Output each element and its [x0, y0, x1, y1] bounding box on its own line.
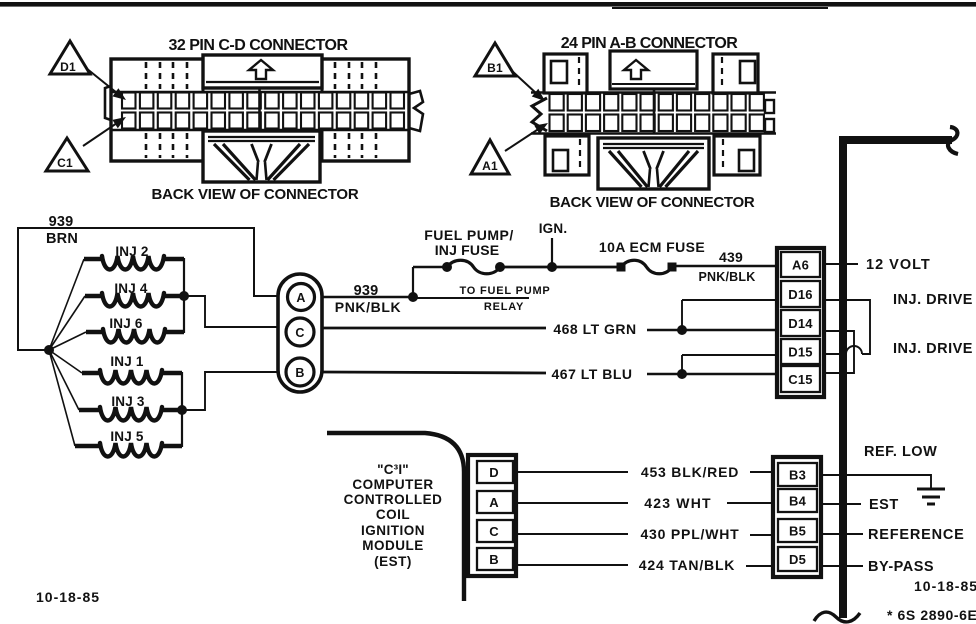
- callout triangle D1: [50, 41, 90, 74]
- node INJ 1/3/5 junction: [177, 405, 187, 415]
- connector J2 center divider: [653, 89, 656, 134]
- node 468 branch: [677, 325, 687, 335]
- ECM connector pins A6 D16 D14 D15 C15: [777, 248, 824, 397]
- label BACK VIEW OF CONNECTOR (left): [152, 186, 359, 203]
- label TO FUEL PUMP RELAY: [459, 285, 550, 313]
- connector J2 pin row B (top, 12 cavities): [550, 94, 764, 111]
- arrow from C1 to pin row: [83, 117, 126, 146]
- svg-text:939: 939: [354, 283, 379, 299]
- label 430 PPL/WHT: [640, 526, 739, 542]
- wire IGN node to ECM fuse: [552, 266, 621, 269]
- connector J2 keying arrow: [624, 60, 648, 79]
- svg-text:BACK VIEW OF CONNECTOR: BACK VIEW OF CONNECTOR: [152, 186, 359, 203]
- wire branch to pin D15: [682, 355, 781, 374]
- svg-text:IGNITION: IGNITION: [361, 523, 425, 538]
- injector INJ 3: [79, 394, 182, 421]
- callout triangle C1: [46, 138, 88, 171]
- svg-text:D14: D14: [788, 316, 813, 331]
- connector J2 24-pin A-B body: [531, 51, 776, 175]
- wire 467 LT BLU: [322, 372, 781, 374]
- svg-text:(EST): (EST): [374, 554, 412, 569]
- connector J1 wing hatch upper-left: [146, 62, 187, 89]
- node fuel pump branch: [408, 292, 418, 302]
- svg-text:A1: A1: [482, 159, 498, 173]
- callout triangle A1: [471, 140, 509, 174]
- connector J1 wing hatch upper-right: [335, 62, 376, 89]
- label C3I COMPUTER CONTROLLED COIL IGNITION MODULE (EST): [344, 462, 443, 569]
- svg-text:A: A: [489, 495, 499, 510]
- label 468 LT GRN: [553, 321, 636, 337]
- label 439 PNK/BLK: [699, 249, 756, 284]
- node injector supply splice: [44, 345, 54, 355]
- svg-text:10-18-85: 10-18-85: [914, 578, 976, 594]
- wire bus INJ 1/3/5: [181, 372, 183, 447]
- svg-text:C: C: [295, 326, 304, 340]
- injector INJ 2: [84, 244, 184, 270]
- svg-text:B: B: [295, 366, 304, 380]
- svg-text:D16: D16: [788, 287, 812, 302]
- wire B4 to EST: [821, 503, 861, 505]
- svg-text:10A ECM FUSE: 10A ECM FUSE: [599, 239, 705, 255]
- label IGN.: [539, 221, 568, 236]
- wire 468 LT GRN: [322, 328, 781, 330]
- svg-text:D5: D5: [789, 552, 806, 567]
- label REF. LOW: [864, 444, 937, 460]
- svg-text:B3: B3: [789, 468, 806, 483]
- svg-text:"C³I": "C³I": [377, 462, 409, 477]
- wire D5 to BY-PASS: [821, 565, 863, 567]
- wire loop D16 to D15: [824, 300, 870, 354]
- label INJ. DRIVE (upper): [893, 292, 973, 308]
- label drawing number 6S 2890-6E: [887, 607, 976, 623]
- svg-text:REFERENCE: REFERENCE: [868, 527, 965, 543]
- wire 424 TAN/BLK: [516, 565, 773, 566]
- svg-text:467 LT BLU: 467 LT BLU: [552, 366, 633, 382]
- svg-text:IGN.: IGN.: [539, 221, 568, 236]
- wire loop D14 to C15: [824, 331, 854, 373]
- svg-text:INJ FUSE: INJ FUSE: [435, 242, 500, 258]
- connector J2 pin row A (bottom, 12 cavities): [550, 115, 764, 132]
- label 10A ECM FUSE: [599, 239, 705, 255]
- connector J2 strain relief: [598, 138, 709, 189]
- label 424 TAN/BLK: [639, 557, 735, 573]
- connector J1 left keyway notch: [105, 86, 111, 120]
- wire 939 BRN feed rail: [18, 227, 254, 351]
- connector J1 keying arrow: [249, 60, 273, 79]
- svg-text:INJ. DRIVE: INJ. DRIVE: [893, 292, 973, 308]
- wire 439 PNK/BLK to pin A6: [672, 265, 781, 268]
- wire stub to fuel pump relay: [413, 297, 529, 299]
- wire B3 to ground: [821, 474, 931, 488]
- svg-text:D: D: [489, 465, 499, 480]
- wire 453 BLK/RED: [516, 471, 773, 473]
- svg-text:BRN: BRN: [46, 231, 78, 247]
- wire bus INJ 2/4/6: [183, 258, 185, 333]
- label EST: [869, 497, 899, 513]
- arrow from B1 to pin row: [511, 70, 545, 101]
- label 939 PNK/BLK: [335, 283, 401, 315]
- fuse 10A ECM: [617, 260, 677, 274]
- svg-text:32 PIN C-D CONNECTOR: 32 PIN C-D CONNECTOR: [168, 37, 348, 54]
- label 453 BLK/RED: [641, 464, 739, 480]
- wire 939 PNK/BLK from pin A: [322, 296, 413, 299]
- connector J1 pin row C (bottom, 16 cavities): [122, 113, 404, 129]
- connector J1 right latch tab: [409, 91, 423, 131]
- svg-text:MODULE: MODULE: [362, 538, 424, 553]
- injector INJ 5: [75, 429, 182, 457]
- svg-text:B: B: [489, 552, 499, 567]
- connector J1 wing hatch lower-right: [335, 133, 376, 158]
- svg-text:C15: C15: [788, 372, 812, 387]
- label FUEL PUMP/ INJ FUSE: [424, 227, 514, 258]
- svg-text:BY-PASS: BY-PASS: [868, 559, 934, 575]
- svg-text:939: 939: [49, 214, 74, 230]
- svg-text:INJ 6: INJ 6: [109, 316, 143, 331]
- connector J2 left keyway notch: [532, 98, 547, 131]
- svg-text:CONTROLLED: CONTROLLED: [344, 492, 443, 507]
- wire A6 to 12 VOLT: [824, 263, 858, 265]
- connector J1 strain relief: [203, 131, 320, 182]
- svg-text:PNK/BLK: PNK/BLK: [335, 299, 401, 315]
- svg-text:A6: A6: [792, 258, 809, 273]
- svg-text:FUEL PUMP/: FUEL PUMP/: [424, 227, 514, 243]
- label BY-PASS: [868, 559, 934, 575]
- svg-text:INJ 1: INJ 1: [110, 354, 144, 369]
- arrow from D1 to pin row: [86, 68, 126, 100]
- svg-text:PNK/BLK: PNK/BLK: [699, 270, 756, 284]
- svg-text:B1: B1: [487, 61, 503, 75]
- label 467 LT BLU: [552, 366, 633, 382]
- svg-text:453 BLK/RED: 453 BLK/RED: [641, 464, 739, 480]
- connector J1 wing hatch lower-left: [146, 133, 187, 158]
- connector C100 3-pin (A C B): [278, 274, 322, 392]
- injector INJ 1: [82, 354, 182, 384]
- wire 423 WHT: [516, 502, 773, 504]
- connector J2 right latch tabs: [765, 100, 774, 132]
- label 32 PIN C-D CONNECTOR: [168, 37, 348, 54]
- label date 10-18-85 (left): [36, 589, 100, 605]
- svg-text:D15: D15: [788, 345, 812, 360]
- ECM connector pins B3 B4 B5 D5: [773, 457, 821, 577]
- wire drop to splice pack pin A: [254, 227, 287, 297]
- wire fuse to IGN node: [500, 266, 552, 269]
- wire 430 PPL/WHT: [516, 534, 773, 535]
- node IGN feed: [547, 238, 557, 272]
- svg-text:TO FUEL PUMP: TO FUEL PUMP: [459, 285, 550, 297]
- label REFERENCE: [868, 527, 965, 543]
- svg-text:RELAY: RELAY: [484, 301, 524, 313]
- label BACK VIEW OF CONNECTOR (right): [550, 194, 755, 211]
- C3I connector pins D A C B: [468, 455, 516, 576]
- svg-text:430 PPL/WHT: 430 PPL/WHT: [640, 526, 739, 542]
- label 939 BRN: [46, 214, 78, 247]
- svg-text:COMPUTER: COMPUTER: [352, 477, 433, 492]
- svg-text:424 TAN/BLK: 424 TAN/BLK: [639, 557, 735, 573]
- top border line: [0, 2, 976, 8]
- wire B5 to REFERENCE: [821, 533, 863, 535]
- svg-text:INJ. DRIVE: INJ. DRIVE: [893, 341, 973, 357]
- wire branch to pin D16: [682, 300, 781, 330]
- C3I module boundary: [327, 433, 464, 601]
- wire junction to pin B: [182, 372, 287, 410]
- svg-text:REF. LOW: REF. LOW: [864, 444, 937, 460]
- svg-text:COIL: COIL: [376, 507, 410, 522]
- svg-text:BACK VIEW OF CONNECTOR: BACK VIEW OF CONNECTOR: [550, 194, 755, 211]
- svg-text:439: 439: [719, 249, 743, 265]
- callout triangle B1: [475, 43, 515, 76]
- ECM boundary line: [843, 127, 958, 618]
- label date 10-18-85 (right): [914, 578, 976, 594]
- label 24 PIN A-B CONNECTOR: [561, 35, 739, 52]
- svg-text:INJ 5: INJ 5: [110, 429, 144, 444]
- svg-text:B4: B4: [789, 494, 807, 509]
- label 423 WHT: [644, 495, 712, 511]
- svg-text:C1: C1: [57, 156, 73, 170]
- arrow from A1 to pin row: [505, 123, 548, 151]
- svg-text:10-18-85: 10-18-85: [36, 589, 100, 605]
- svg-text:EST: EST: [869, 497, 899, 513]
- ECM boundary break squiggle (bottom): [814, 612, 860, 622]
- wire junction to pin C: [184, 296, 287, 327]
- node INJ 2/4/6 junction: [179, 291, 189, 301]
- svg-text:B5: B5: [789, 524, 806, 539]
- svg-text:C: C: [489, 524, 499, 539]
- label INJ. DRIVE (lower): [893, 341, 973, 357]
- injector INJ 4: [85, 281, 183, 307]
- svg-text:D1: D1: [60, 60, 76, 74]
- svg-text:A: A: [296, 291, 305, 305]
- fuse FUEL PUMP/INJ: [442, 260, 505, 274]
- connector J2 corner block windows: [551, 57, 755, 172]
- connector J1 center divider: [258, 88, 261, 131]
- svg-text:12 VOLT: 12 VOLT: [866, 257, 931, 273]
- ground symbol: [917, 489, 945, 504]
- node 467 branch: [677, 369, 687, 379]
- svg-text:468 LT GRN: 468 LT GRN: [553, 321, 636, 337]
- svg-text:* 6S 2890-6E: * 6S 2890-6E: [887, 607, 976, 623]
- injector INJ 6: [86, 316, 184, 343]
- fan wires from splice to injectors: [49, 259, 86, 446]
- wire riser to fuse line: [413, 267, 447, 298]
- connector J1 32-pin C-D body: [111, 55, 409, 161]
- connector J1 pin row D (top, 16 cavities): [122, 93, 404, 109]
- svg-text:423 WHT: 423 WHT: [644, 495, 712, 511]
- label 12 VOLT: [866, 257, 931, 273]
